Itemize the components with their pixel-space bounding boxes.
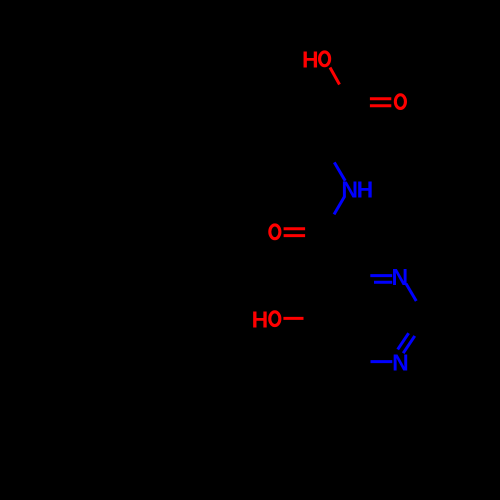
svg-text:N: N bbox=[392, 264, 409, 290]
svg-text:H: H bbox=[357, 176, 374, 202]
svg-text:N: N bbox=[341, 176, 358, 202]
svg-text:H: H bbox=[302, 47, 319, 73]
svg-text:N: N bbox=[392, 349, 409, 375]
svg-text:H: H bbox=[252, 307, 269, 333]
